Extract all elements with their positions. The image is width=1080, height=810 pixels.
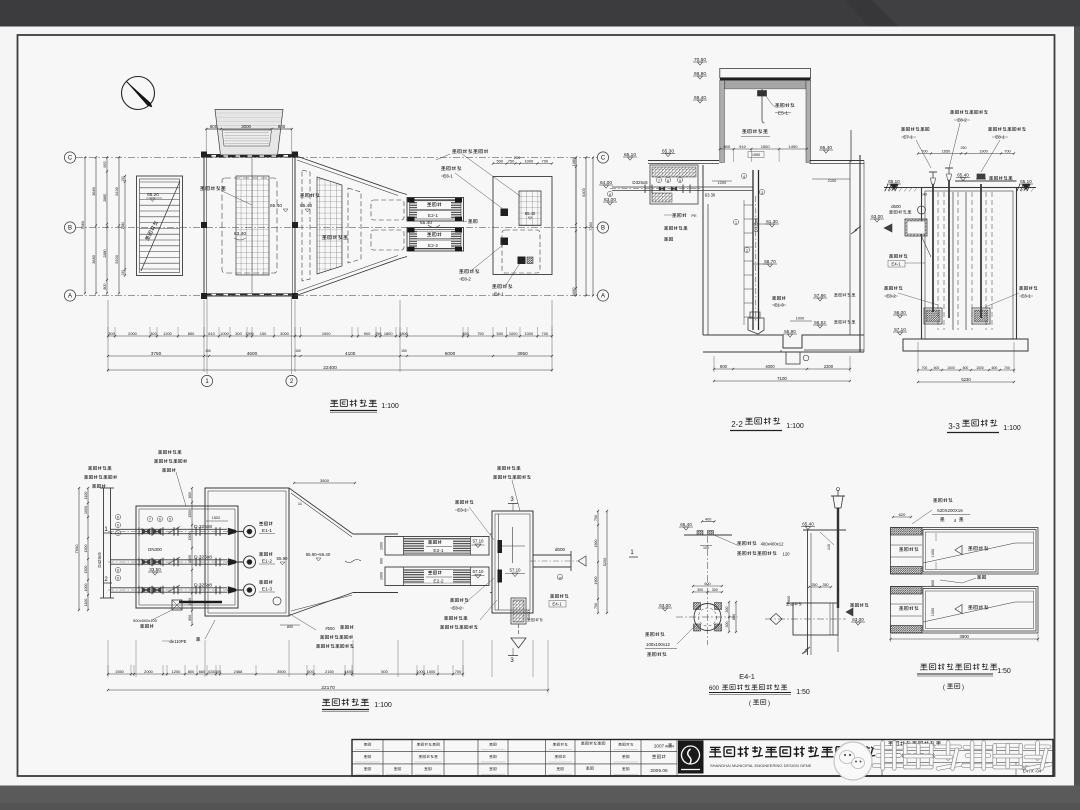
svg-text:3000: 3000 bbox=[241, 124, 251, 129]
svg-text:500: 500 bbox=[497, 331, 504, 336]
svg-text:PE: PE bbox=[691, 213, 697, 218]
svg-text:1000: 1000 bbox=[427, 669, 436, 674]
section 2-2: submersible pump E1-3 bbox=[772, 296, 776, 298]
upper plan: bottom dimension chains bbox=[108, 335, 552, 337]
grille detail: 620 dim and labels bbox=[893, 516, 911, 518]
svg-text:8: 8 bbox=[117, 569, 119, 573]
section 3-3: bottom dim chain bbox=[918, 369, 1014, 371]
svg-text:1:100: 1:100 bbox=[381, 403, 399, 410]
svg-text:2009.06: 2009.06 bbox=[650, 768, 668, 774]
upper plan: funnel transition walls bbox=[295, 156, 400, 193]
svg-text:800: 800 bbox=[210, 124, 218, 129]
upper plan: right vertical dims 1080 5300 7360 bbox=[575, 158, 577, 296]
svg-text:65.40: 65.40 bbox=[957, 172, 969, 177]
svg-text:600: 600 bbox=[732, 614, 736, 620]
section 2-2: inlet pipe and valves bbox=[612, 186, 753, 188]
svg-text:500: 500 bbox=[381, 669, 388, 674]
svg-text:1100: 1100 bbox=[84, 492, 88, 500]
svg-text:600: 600 bbox=[992, 366, 998, 370]
svg-text:1000: 1000 bbox=[976, 366, 984, 370]
lower plan: sump pit square bbox=[172, 600, 182, 610]
section 2-2: ladder rungs bbox=[744, 204, 753, 206]
svg-text:65.40: 65.40 bbox=[680, 522, 692, 527]
upper plan: extension lines to dim chain bbox=[107, 327, 109, 338]
svg-text:57.10: 57.10 bbox=[510, 568, 522, 573]
svg-text:1:100: 1:100 bbox=[786, 423, 804, 430]
svg-text:4: 4 bbox=[743, 175, 745, 179]
svg-text:900: 900 bbox=[364, 331, 371, 336]
svg-text:5200: 5200 bbox=[603, 558, 607, 566]
svg-text:300: 300 bbox=[712, 588, 718, 592]
svg-text:1650: 1650 bbox=[942, 150, 950, 154]
svg-text:300: 300 bbox=[725, 622, 729, 628]
upper plan: gate chamber rectangle bbox=[493, 177, 552, 275]
section 3-3: gates at bottom (hatched) bbox=[924, 308, 942, 324]
svg-text:1: 1 bbox=[735, 221, 737, 225]
svg-text:D325x8: D325x8 bbox=[632, 180, 648, 185]
svg-text:1500: 1500 bbox=[84, 545, 88, 553]
section 3-3: cover plate platform bbox=[955, 180, 1017, 182]
lower plan: screens E2-1 E2-2 lower bbox=[385, 537, 489, 556]
lower plan: drain pipe down (hatched) with arrow bbox=[511, 598, 526, 624]
svg-text:600: 600 bbox=[380, 558, 384, 564]
section 3-3: top machine labels bbox=[901, 127, 905, 129]
svg-text:1:100: 1:100 bbox=[1003, 425, 1021, 432]
upper plan: title bbox=[331, 399, 338, 401]
svg-text:65.40: 65.40 bbox=[525, 211, 536, 216]
svg-text:4000: 4000 bbox=[765, 364, 775, 369]
section 2-2: tank right wall bbox=[849, 161, 851, 336]
bottom gray band bbox=[0, 786, 1080, 810]
section 3-3: stems down to gates bbox=[932, 184, 934, 312]
svg-text:1000: 1000 bbox=[380, 572, 384, 580]
svg-text:65.20: 65.20 bbox=[147, 192, 159, 197]
svg-text:1500: 1500 bbox=[84, 566, 88, 574]
svg-text:): ) bbox=[962, 684, 964, 691]
svg-text:1800: 1800 bbox=[384, 331, 393, 336]
svg-text:1100: 1100 bbox=[84, 599, 88, 607]
svg-text:800: 800 bbox=[103, 161, 107, 167]
svg-text:65.10: 65.10 bbox=[888, 179, 900, 184]
svg-text:700: 700 bbox=[594, 603, 598, 609]
svg-text:1000: 1000 bbox=[322, 331, 331, 336]
upper plan: dashed boxes before screens bbox=[371, 200, 404, 220]
svg-text:700: 700 bbox=[594, 515, 598, 521]
svg-text:665: 665 bbox=[199, 669, 206, 674]
svg-text:2007: 2007 bbox=[654, 744, 665, 749]
svg-text:55.90: 55.90 bbox=[277, 556, 289, 561]
section 2-2: floor elevations bbox=[623, 156, 637, 158]
detail E4-1: d600 pipe side view bbox=[793, 603, 838, 635]
svg-text:E1-1: E1-1 bbox=[262, 528, 272, 534]
section 3-3: interior channel dashed walls bbox=[937, 192, 939, 330]
lower plan: top right leader 预留840孔 bbox=[497, 466, 501, 468]
watermark wechat logo circle bbox=[834, 742, 872, 780]
svg-text:70.50: 70.50 bbox=[694, 57, 706, 63]
svg-text:3000: 3000 bbox=[280, 331, 289, 336]
grille detail: band1 screen frame bbox=[923, 530, 1036, 573]
svg-text:1590: 1590 bbox=[752, 153, 760, 157]
svg-text:3750: 3750 bbox=[151, 351, 162, 356]
svg-text:800: 800 bbox=[723, 144, 730, 149]
svg-text:D325x8: D325x8 bbox=[754, 217, 759, 232]
svg-text:2000: 2000 bbox=[128, 331, 137, 336]
svg-text:140: 140 bbox=[921, 193, 927, 197]
section 3-3: ground line with hatching bbox=[884, 187, 922, 189]
svg-text:1900: 1900 bbox=[594, 540, 598, 548]
svg-text:1000: 1000 bbox=[84, 506, 88, 514]
svg-text:300: 300 bbox=[697, 588, 703, 592]
detail E4-1: break line bottom bbox=[802, 647, 810, 654]
svg-text:700: 700 bbox=[1004, 366, 1010, 370]
svg-text:2: 2 bbox=[746, 249, 748, 253]
svg-text:69.40: 69.40 bbox=[694, 95, 706, 101]
svg-text:AH04: AH04 bbox=[665, 745, 674, 749]
lower plan: E3-1 E3-2 valve labels lower bbox=[455, 500, 459, 502]
svg-text:1200: 1200 bbox=[718, 181, 726, 185]
svg-text:2150: 2150 bbox=[325, 669, 334, 674]
svg-text:E2-2: E2-2 bbox=[428, 243, 438, 249]
lower plan: outer structure box bbox=[205, 488, 289, 616]
detail E4-1: anchor plate plan with circle bbox=[694, 604, 721, 631]
svg-text:150: 150 bbox=[205, 349, 211, 353]
svg-text:65.40: 65.40 bbox=[802, 521, 814, 526]
svg-text:300: 300 bbox=[150, 331, 157, 336]
svg-text:E4-1: E4-1 bbox=[891, 262, 901, 267]
lower plan: chamber cross + 57.10 bbox=[512, 527, 514, 563]
svg-text:600: 600 bbox=[963, 366, 969, 370]
svg-text:140: 140 bbox=[827, 544, 831, 550]
svg-text:7360: 7360 bbox=[80, 220, 85, 229]
svg-text:55.90~56.40: 55.90~56.40 bbox=[306, 552, 331, 557]
upper plan: roof canopy above (light gray entrance) bbox=[215, 110, 283, 156]
svg-text:#500: #500 bbox=[325, 626, 335, 631]
svg-text:2580: 2580 bbox=[121, 222, 125, 230]
upper plan: left vertical dim chains bbox=[84, 157, 86, 293]
section 2-2: ledges and elevation marks in tank bbox=[753, 223, 771, 225]
section 2-2: ceiling gray band bbox=[724, 80, 806, 89]
svg-text:E2-1: E2-1 bbox=[428, 213, 438, 219]
upper plan: pump house outer walls bbox=[204, 155, 295, 297]
svg-text:350: 350 bbox=[823, 583, 829, 587]
svg-text:4600: 4600 bbox=[247, 351, 258, 356]
svg-text:2880: 2880 bbox=[103, 194, 107, 202]
svg-text:3500: 3500 bbox=[320, 478, 330, 483]
svg-text:SHANGHAI MUNICIPAL ENGINEERING: SHANGHAI MUNICIPAL ENGINEERING DESIGN GE… bbox=[710, 763, 812, 768]
svg-text:500: 500 bbox=[497, 159, 504, 164]
section 2-2: water levels right bbox=[813, 297, 827, 299]
svg-text:250: 250 bbox=[514, 155, 521, 160]
grille detail: band 1 outer bbox=[891, 528, 1039, 575]
svg-text:700: 700 bbox=[542, 331, 549, 336]
svg-text:1502: 1502 bbox=[212, 516, 220, 520]
svg-text:8: 8 bbox=[609, 193, 611, 197]
svg-text:700: 700 bbox=[922, 366, 928, 370]
svg-text:800: 800 bbox=[188, 615, 192, 621]
svg-text:E2-1: E2-1 bbox=[433, 548, 443, 554]
svg-text:4100: 4100 bbox=[345, 351, 356, 356]
upper plan: slanted grating inside funnel bbox=[317, 177, 342, 274]
svg-text:8: 8 bbox=[117, 516, 119, 520]
svg-text:620X200X16: 620X200X16 bbox=[937, 508, 963, 513]
svg-text:2468: 2468 bbox=[234, 669, 243, 674]
grille detail: band1 flow arrow bbox=[955, 546, 962, 555]
svg-text:500: 500 bbox=[307, 669, 314, 674]
lower plan: middle vertical dim chain bbox=[191, 488, 193, 625]
lower plan: pump reducer bbox=[228, 528, 236, 535]
lower plan: pump E1-1 bbox=[244, 526, 256, 538]
svg-text:700: 700 bbox=[455, 669, 462, 674]
svg-text:d600: d600 bbox=[555, 547, 566, 552]
svg-text:7: 7 bbox=[658, 179, 660, 183]
upper plan: channel walls to screens bbox=[400, 193, 407, 195]
svg-text:57.10: 57.10 bbox=[473, 539, 485, 544]
svg-text:150: 150 bbox=[260, 331, 267, 336]
svg-text:300: 300 bbox=[108, 331, 115, 336]
lower plan: 3500 top dim bbox=[294, 482, 355, 484]
svg-text:A: A bbox=[68, 294, 72, 300]
svg-text:65.40: 65.40 bbox=[420, 220, 432, 226]
svg-text:1080: 1080 bbox=[571, 157, 576, 166]
svg-text:2-2: 2-2 bbox=[731, 420, 743, 429]
lower plan: extension lines to dim chain bbox=[107, 665, 109, 676]
svg-text:1:50: 1:50 bbox=[997, 668, 1011, 675]
title block logo (SMEDI) bbox=[679, 741, 704, 773]
lower plan: funnel transition lower bbox=[289, 488, 353, 534]
svg-text:22170: 22170 bbox=[321, 685, 335, 691]
upper plan: thick dashed cover line on top wall bbox=[204, 155, 295, 158]
svg-text:3680: 3680 bbox=[91, 254, 96, 263]
svg-text:600: 600 bbox=[934, 366, 940, 370]
lower plan: pump reducer bbox=[228, 559, 236, 566]
lower plan: channel to screens bbox=[353, 533, 398, 535]
svg-text:800: 800 bbox=[103, 284, 107, 290]
svg-text:61.30: 61.30 bbox=[766, 219, 778, 224]
svg-text:de110PE: de110PE bbox=[170, 639, 187, 644]
detail E4-1: flow direction arrow right bbox=[850, 603, 854, 605]
section 3-3: base slab bbox=[903, 339, 1028, 351]
svg-text:1500: 1500 bbox=[188, 533, 192, 541]
svg-text:6: 6 bbox=[159, 518, 161, 522]
svg-text:63.30: 63.30 bbox=[705, 193, 716, 198]
section 2-2: superstructure walls gray bbox=[720, 80, 725, 162]
svg-text:3680: 3680 bbox=[91, 186, 96, 195]
svg-text:300: 300 bbox=[725, 607, 729, 613]
title block column lines bbox=[382, 740, 384, 777]
svg-text:1000: 1000 bbox=[84, 584, 88, 592]
svg-text:1000: 1000 bbox=[931, 608, 935, 616]
svg-text:1550: 1550 bbox=[115, 669, 124, 674]
svg-text:E1-3: E1-3 bbox=[262, 587, 272, 593]
section 2-2: title bbox=[746, 417, 753, 419]
section 2-2: bottom dim chain 800 4000 2300 bbox=[714, 368, 850, 370]
svg-text:DN300: DN300 bbox=[148, 547, 162, 552]
grille detail: band 2 outer bbox=[891, 587, 1039, 634]
svg-text:C: C bbox=[601, 156, 606, 162]
detail E4-1: labels 100x100x12 bottom-left bbox=[645, 632, 649, 634]
svg-text:150: 150 bbox=[401, 349, 407, 353]
svg-text:3: 3 bbox=[761, 191, 763, 195]
svg-text:2000: 2000 bbox=[144, 669, 153, 674]
svg-text:600: 600 bbox=[709, 686, 720, 692]
upper plan: railing label bbox=[468, 219, 472, 221]
svg-text:1900: 1900 bbox=[979, 150, 987, 154]
svg-text:22400: 22400 bbox=[323, 365, 337, 371]
section 3-3: tank walls bbox=[922, 188, 1017, 340]
section 2-2: left inlet chamber hatched walls bbox=[650, 165, 698, 204]
svg-text:69.90: 69.90 bbox=[694, 71, 706, 77]
svg-text:1490: 1490 bbox=[789, 144, 799, 149]
title block outer frame bbox=[352, 740, 1053, 777]
upper plan: column squares bbox=[201, 152, 207, 158]
svg-text:1000: 1000 bbox=[524, 159, 533, 164]
grille detail: bottom 3800 dim bbox=[891, 638, 1039, 640]
section 2-2: small outlet box below right bbox=[786, 352, 800, 364]
section 3-3: title bbox=[963, 419, 970, 421]
lower plan: top-left leader labels (预留孔) bbox=[88, 466, 92, 468]
svg-text:1:50: 1:50 bbox=[796, 689, 810, 696]
svg-text:65.10: 65.10 bbox=[624, 152, 636, 158]
section 2-2: roof slab dark line bbox=[720, 78, 811, 81]
upper plan: leader labels (glass cover / valves) bbox=[452, 149, 456, 151]
svg-text:D.325x8: D.325x8 bbox=[194, 524, 212, 530]
detail E4-1: 65.40 plate right bbox=[803, 529, 846, 531]
svg-text:B: B bbox=[68, 226, 72, 232]
svg-text:D.325x8: D.325x8 bbox=[194, 583, 212, 589]
svg-text:57.10: 57.10 bbox=[894, 327, 906, 332]
svg-text:63.40: 63.40 bbox=[234, 231, 246, 237]
svg-text:100x100x12: 100x100x12 bbox=[646, 642, 670, 647]
svg-text:E4-1: E4-1 bbox=[552, 602, 562, 607]
svg-text:E1-2: E1-2 bbox=[262, 559, 272, 565]
svg-text:16: 16 bbox=[558, 576, 562, 580]
section 2-2: right break line bbox=[851, 226, 861, 234]
svg-text:1:100: 1:100 bbox=[374, 702, 392, 709]
svg-text:63.00: 63.00 bbox=[604, 197, 616, 203]
svg-text:D.325x8: D.325x8 bbox=[194, 555, 212, 561]
svg-text:700: 700 bbox=[921, 150, 927, 154]
title block cell texts (approver/designer cells) bbox=[364, 742, 367, 744]
svg-text:850: 850 bbox=[188, 331, 195, 336]
section 2-2: superstructure parapet roof bbox=[720, 69, 811, 78]
svg-text:1200: 1200 bbox=[163, 331, 172, 336]
svg-text:150: 150 bbox=[121, 176, 125, 182]
svg-text:150: 150 bbox=[295, 349, 301, 353]
section 2-2: electric hoist E5-1 bbox=[761, 89, 763, 120]
svg-text:600: 600 bbox=[931, 580, 935, 586]
detail E4-1: center vertical dashdot line bbox=[707, 536, 709, 645]
watermark text strokes (white with gray outline) bbox=[876, 745, 902, 749]
upper plan: dashed box bottom right bbox=[502, 230, 540, 273]
svg-text:400: 400 bbox=[705, 518, 711, 522]
svg-text:65.10: 65.10 bbox=[1020, 179, 1032, 184]
svg-text:620: 620 bbox=[899, 512, 906, 517]
lower plan: title bbox=[323, 698, 330, 700]
svg-text:57.10: 57.10 bbox=[473, 569, 485, 574]
svg-text:800: 800 bbox=[720, 364, 728, 369]
svg-text:600: 600 bbox=[704, 582, 710, 586]
svg-text:400x400x12: 400x400x12 bbox=[761, 542, 784, 547]
svg-text:E4-1: E4-1 bbox=[739, 672, 755, 681]
north arrow symbol bbox=[122, 77, 155, 110]
svg-text:910: 910 bbox=[739, 144, 746, 149]
section 2-2: bottom slab with sump bbox=[703, 335, 864, 348]
svg-text:55.90: 55.90 bbox=[784, 329, 796, 334]
svg-text:58.00: 58.00 bbox=[894, 310, 906, 315]
section 2-2: tank left wall bbox=[702, 165, 704, 335]
svg-text:E5-1: E5-1 bbox=[778, 111, 788, 117]
upper plan: left walkway (hatched stair) bbox=[137, 176, 183, 276]
svg-text:5230: 5230 bbox=[961, 377, 971, 382]
lower plan: header pipe vertical bbox=[103, 488, 105, 598]
svg-text:A: A bbox=[601, 294, 605, 300]
svg-text:6: 6 bbox=[667, 179, 669, 183]
detail E4-1: labels 预埋钢板 400x400x12 bbox=[737, 541, 741, 543]
section 3-3: elevations 58.00 57.10 bbox=[893, 314, 907, 316]
svg-text:B: B bbox=[601, 226, 605, 232]
svg-text:7600: 7600 bbox=[74, 544, 79, 554]
svg-text:3800: 3800 bbox=[960, 634, 970, 639]
svg-text:3-3: 3-3 bbox=[948, 422, 960, 431]
lower plan: pump room box bbox=[136, 506, 238, 608]
svg-text:D600: D600 bbox=[527, 610, 531, 619]
svg-text:56.52: 56.52 bbox=[814, 320, 826, 325]
svg-text:1000: 1000 bbox=[524, 331, 533, 336]
svg-text:5: 5 bbox=[679, 179, 681, 183]
upper plan: grid box top right bbox=[519, 191, 541, 226]
detail E4-1: top anchor plate elevation bbox=[684, 534, 732, 536]
grille detail: title bbox=[921, 663, 927, 665]
svg-text:150: 150 bbox=[121, 270, 125, 276]
svg-text:5: 5 bbox=[169, 518, 171, 522]
detail E4-1: plan dims 600 300 300 bbox=[693, 591, 722, 593]
svg-text:65.30: 65.30 bbox=[662, 148, 674, 154]
svg-text:1000: 1000 bbox=[416, 669, 425, 674]
svg-text:100: 100 bbox=[703, 546, 709, 550]
svg-text:5300: 5300 bbox=[581, 187, 586, 196]
section 3-3: gate actuators and stems bbox=[929, 171, 937, 173]
section 2-2: elevation flags 70.50 69.90 69.40 bbox=[693, 61, 707, 63]
svg-text:800: 800 bbox=[188, 669, 195, 674]
svg-text:7100: 7100 bbox=[777, 376, 787, 381]
svg-text:d600: d600 bbox=[891, 204, 901, 209]
svg-text:1500: 1500 bbox=[188, 555, 192, 563]
svg-text:63.00: 63.00 bbox=[852, 617, 864, 622]
lower plan: gate chamber lower bbox=[492, 511, 533, 613]
svg-text:1000: 1000 bbox=[380, 542, 384, 550]
svg-text:800: 800 bbox=[188, 492, 192, 498]
svg-text:1390: 1390 bbox=[245, 331, 254, 336]
upper plan: column axis bubbles 1 2 bbox=[206, 296, 208, 374]
svg-text:1000: 1000 bbox=[947, 366, 955, 370]
upper plan: interior grating grid left bbox=[236, 176, 269, 275]
svg-text:65.40: 65.40 bbox=[270, 203, 282, 209]
upper plan: screen channel E2-1 bbox=[407, 198, 464, 222]
svg-text:9: 9 bbox=[117, 577, 119, 581]
top dark banner bbox=[0, 0, 1080, 27]
svg-text:700: 700 bbox=[1004, 150, 1010, 154]
svg-text:350: 350 bbox=[812, 583, 818, 587]
lower plan: pump E1-2 bbox=[244, 556, 256, 568]
svg-text:1500: 1500 bbox=[761, 144, 771, 149]
svg-text:E2-2: E2-2 bbox=[433, 579, 443, 585]
lower plan: thick drain pipe from sump bbox=[179, 601, 222, 603]
lower plan: pump E1-3 bbox=[244, 584, 256, 596]
svg-text:1200: 1200 bbox=[172, 669, 181, 674]
svg-text:9: 9 bbox=[117, 524, 119, 528]
svg-text:1000: 1000 bbox=[796, 317, 804, 321]
detail E4-1: right valve actuator and stem bbox=[833, 496, 843, 508]
